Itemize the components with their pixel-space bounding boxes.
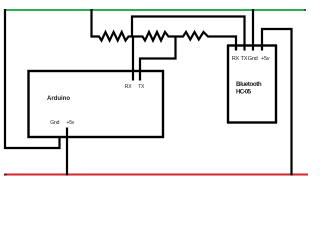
+5v rail (red, bottom) (4, 174, 308, 176)
ground rail (green, top) (5, 9, 306, 11)
svg-text:RX: RX (232, 56, 240, 62)
wire: node A down to Arduino RX pin (132, 37, 134, 81)
wire: left rail from green rail to Arduino Gnd pin (5, 9, 60, 148)
wire: Arduino +5v pin to red rail (66, 128, 68, 176)
wire: node A up and over to HC-05 TX pin (132, 17, 245, 51)
wire: HC-05 RX pin stub (235, 46, 237, 51)
Arduino U1 (29, 71, 164, 137)
resistor chain: wire from green rail, R1, node A, R2, node B, R3, to HC-05 RX (92, 9, 237, 51)
wire: node B jog down to Arduino TX pin (140, 37, 176, 81)
svg-text:+5v: +5v (67, 120, 75, 126)
svg-text:Gnd: Gnd (50, 120, 59, 126)
svg-text:HC-05: HC-05 (236, 88, 252, 95)
green rail end dot (304, 9, 306, 11)
red rail start dot (4, 174, 7, 176)
wire: HC-05 +5v pin up, over and down to red rail (262, 29, 292, 176)
svg-text:Arduino: Arduino (47, 96, 70, 102)
svg-text:Gnd: Gnd (248, 56, 258, 62)
svg-text:RX: RX (125, 84, 132, 90)
wire: HC-05 Gnd pin up to green rail (252, 9, 254, 51)
svg-text:Bluetooth: Bluetooth (236, 81, 262, 88)
svg-text:TX: TX (138, 84, 145, 90)
Bluetooth HC-05 module U2 (228, 46, 276, 123)
svg-text:+5v: +5v (261, 56, 270, 62)
svg-text:TX: TX (241, 56, 248, 62)
